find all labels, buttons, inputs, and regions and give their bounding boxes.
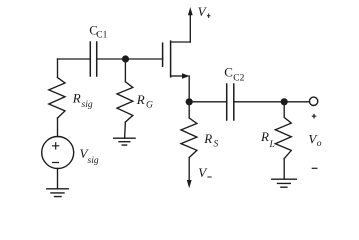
ground (Vsig) [47, 189, 68, 197]
capacitor CC1 [90, 42, 96, 76]
label RG [136, 92, 153, 110]
node C junction dot [281, 98, 288, 105]
wire RS down to V- [188, 158, 190, 182]
svg-text:R: R [136, 92, 145, 107]
supply V+ arrow [188, 7, 193, 15]
wire node B to RS [188, 102, 190, 118]
source Vsig [42, 137, 74, 169]
label output minus [312, 167, 318, 169]
resistor RS [181, 118, 197, 158]
node A junction dot [122, 55, 129, 62]
label Vo [308, 131, 321, 149]
wire drain up [189, 15, 191, 42]
output terminal [309, 97, 317, 105]
label V+ [198, 4, 211, 19]
label output plus [312, 114, 317, 119]
svg-text:G: G [146, 100, 153, 110]
capacitor CC2 [227, 84, 234, 120]
label RS [203, 131, 218, 149]
label V- [198, 165, 212, 180]
wire Vsig to ground [57, 169, 59, 189]
svg-text:R: R [203, 131, 212, 146]
svg-text:sig: sig [82, 100, 93, 110]
wire RL to ground [283, 159, 285, 180]
svg-text:C: C [224, 65, 233, 80]
svg-text:V: V [198, 4, 208, 19]
wire RG to ground [124, 122, 127, 138]
svg-text:sig: sig [88, 156, 99, 166]
svg-text:S: S [214, 139, 219, 149]
ground (RL) [272, 179, 297, 187]
svg-text:o: o [317, 139, 322, 149]
label Vsig [80, 146, 99, 166]
svg-text:R: R [72, 90, 81, 105]
supply V- arrow [187, 180, 192, 188]
label Rsig [72, 90, 93, 110]
transistor Q1 (MOSFET) [163, 41, 191, 79]
label CC2 [224, 65, 244, 84]
resistor RG [117, 82, 133, 122]
wire left vertical down to Rsig [57, 59, 59, 78]
wire node C down to RL [283, 102, 285, 117]
wire CC2 to output terminal [234, 101, 309, 103]
svg-text:L: L [269, 140, 275, 150]
resistor RL [275, 117, 291, 158]
wire Rsig to Vsig [57, 118, 59, 137]
svg-text:V: V [198, 165, 208, 180]
wire top-left horizontal from Rsig branch to CC1 [58, 58, 91, 60]
node B junction dot [186, 98, 193, 105]
wire source down to node B [188, 76, 190, 102]
wire node B to CC2 [189, 101, 227, 103]
label RL [260, 129, 275, 150]
wire node A down to RG [124, 59, 126, 82]
svg-text:C1: C1 [96, 30, 107, 40]
label CC1 [89, 22, 107, 40]
ground (RG) [114, 138, 135, 145]
resistor Rsig [49, 78, 65, 118]
svg-text:C2: C2 [233, 73, 244, 83]
wire CC1 to gate [97, 58, 163, 60]
svg-text:R: R [260, 129, 269, 144]
